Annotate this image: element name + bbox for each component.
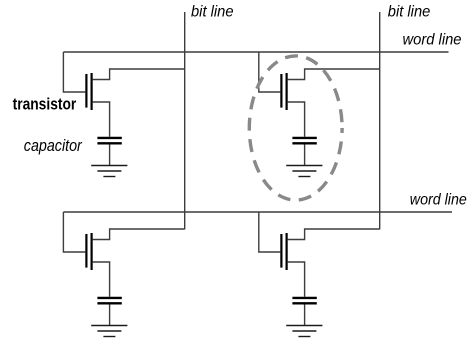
wire Q4 drain to BL2 — [288, 229, 380, 240]
wire Q1 source to C1 — [93, 102, 110, 137]
wire Q3 drain to BL1 — [93, 229, 185, 240]
wire C1 to ground — [109, 144, 111, 165]
wire Q2 drain to BL2 — [288, 69, 380, 80]
svg-text:word line: word line — [410, 191, 467, 208]
capacitor C4 — [292, 298, 316, 303]
wire Q4 source to C4 — [288, 262, 305, 297]
wire Q2 source to C2 — [288, 102, 305, 137]
wire C3 to ground — [109, 304, 111, 325]
wire C2 to ground — [304, 144, 306, 165]
bit line BL1 (left vertical) — [184, 12, 186, 229]
capacitor C1 — [97, 138, 121, 143]
svg-text:word line: word line — [403, 31, 462, 48]
ground (cell 3) — [91, 326, 127, 337]
svg-text:transistor: transistor — [13, 94, 77, 113]
transistor Q1 — [86, 73, 91, 110]
ground (cell 2) — [286, 166, 322, 177]
svg-text:capacitor: capacitor — [24, 136, 83, 155]
highlight ellipse (selected cell) — [249, 56, 342, 200]
wire Q3 source to C3 — [93, 262, 110, 297]
word line WL2 (lower horizontal) — [63, 211, 452, 213]
capacitor C3 — [97, 298, 121, 303]
wire gate feed Q3 (from WL2) — [63, 212, 85, 252]
wire Q1 drain to BL1 — [93, 69, 185, 80]
transistor Q4 — [281, 233, 286, 270]
svg-text:bit line: bit line — [388, 3, 431, 20]
capacitor C2 — [292, 138, 316, 143]
word line WL1 (upper horizontal) — [63, 51, 448, 53]
ground (cell 1) — [91, 166, 127, 177]
transistor Q2 — [281, 73, 286, 110]
wire gate feed Q2 (from WL1) — [259, 52, 281, 92]
wire C4 to ground — [304, 304, 306, 325]
svg-text:bit line: bit line — [191, 3, 234, 20]
wire gate feed Q1 (from WL1) — [63, 52, 85, 92]
bit line BL2 (right vertical) — [379, 12, 381, 229]
wire gate feed Q4 (from WL2) — [259, 212, 281, 252]
transistor Q3 — [86, 233, 91, 270]
ground (cell 4) — [286, 326, 322, 337]
